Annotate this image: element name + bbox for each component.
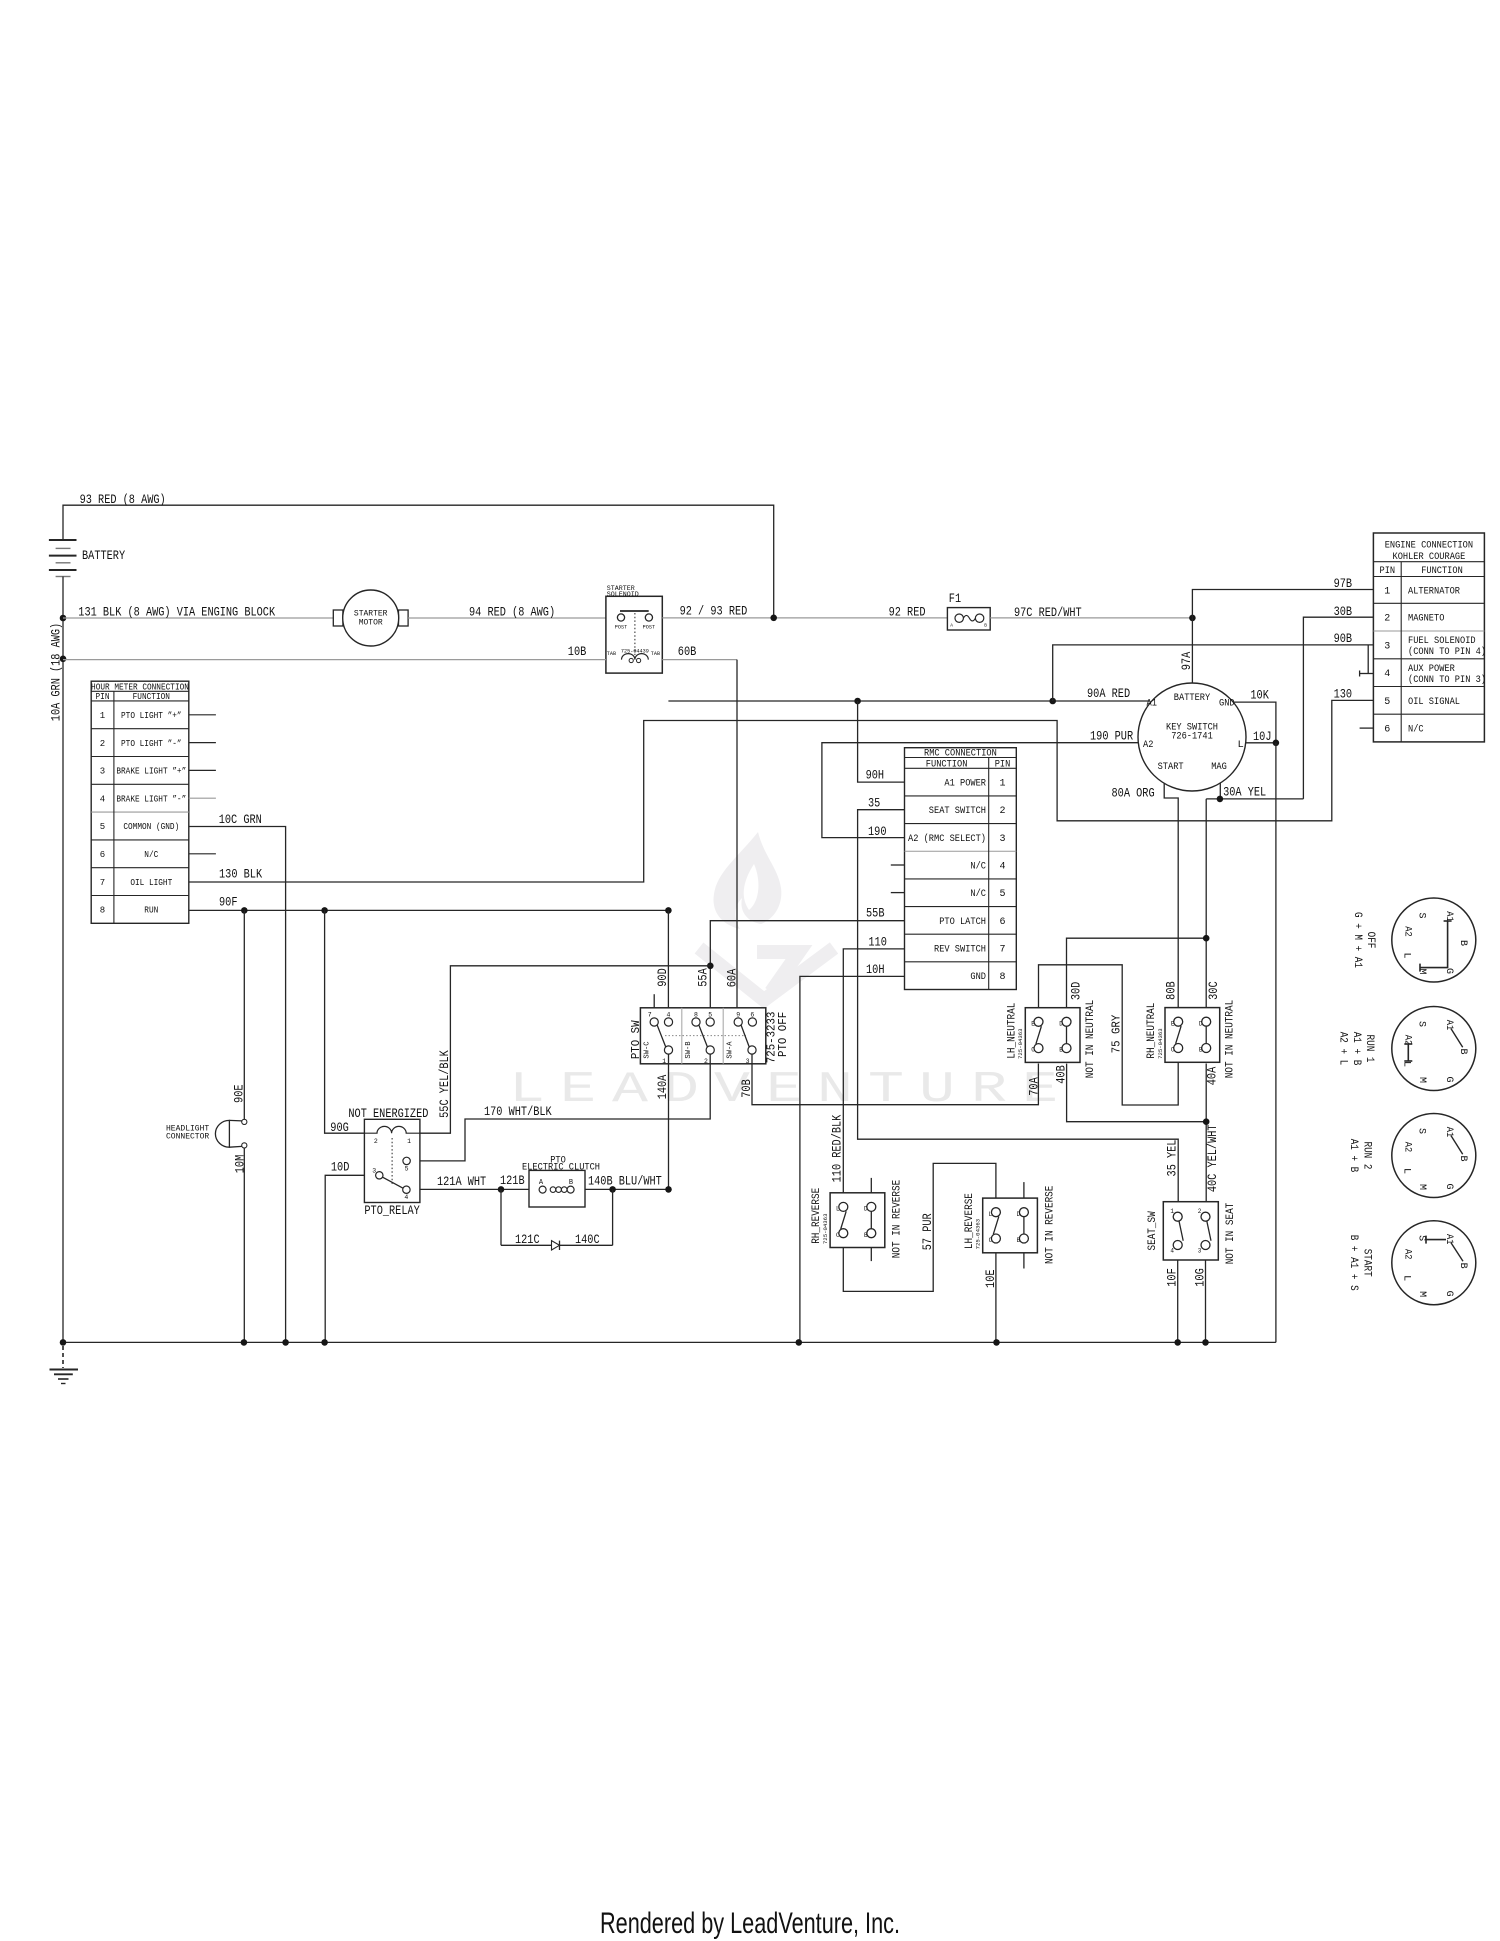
svg-text:4: 4 (1384, 669, 1390, 680)
svg-text:A2: A2 (1402, 926, 1413, 936)
svg-text:9: 9 (736, 1011, 740, 1018)
svg-text:1: 1 (407, 1138, 411, 1145)
wire 40A / 40C YEL/WHT (1204, 1064, 1220, 1202)
svg-text:B: B (1457, 1048, 1468, 1054)
svg-text:B: B (864, 1232, 868, 1239)
svg-text:SW-A: SW-A (726, 1041, 734, 1059)
wire 90F (189, 895, 669, 911)
svg-text:140A: 140A (655, 1075, 670, 1100)
svg-text:PTO OFF: PTO OFF (776, 1012, 790, 1057)
svg-text:C: C (836, 1232, 840, 1239)
wire 30D (1067, 938, 1207, 1008)
svg-text:B: B (1457, 940, 1468, 946)
wire 40B (1053, 1064, 1206, 1122)
node 90G junction (321, 907, 328, 914)
svg-text:3: 3 (100, 767, 105, 777)
svg-text:NOT IN REVERSE: NOT IN REVERSE (1044, 1185, 1056, 1264)
svg-text:130: 130 (1334, 687, 1353, 702)
wire 75 GRY (1039, 965, 1179, 1105)
svg-text:6: 6 (999, 917, 1005, 928)
svg-text:B: B (1457, 1155, 1468, 1161)
wire 130 engine to hour meter (189, 687, 1374, 883)
svg-text:70B: 70B (739, 1079, 754, 1098)
svg-text:OFF: OFF (1364, 932, 1376, 949)
svg-text:PTO LIGHT ”-”: PTO LIGHT ”-” (121, 739, 182, 749)
svg-text:ENGINE CONNECTION: ENGINE CONNECTION (1385, 541, 1473, 552)
svg-text:PTO SW: PTO SW (629, 1020, 643, 1059)
wire 92 / 93 RED (662, 604, 947, 619)
svg-text:(CONN TO PIN 3): (CONN TO PIN 3) (1408, 674, 1486, 686)
svg-text:S: S (1416, 1235, 1427, 1241)
key position RUN 2 (1347, 1114, 1476, 1198)
svg-text:40B: 40B (1053, 1065, 1068, 1084)
svg-text:BRAKE LIGHT ”-”: BRAKE LIGHT ”-” (116, 794, 186, 804)
watermark flame logo (714, 832, 782, 929)
svg-text:110: 110 (868, 935, 887, 950)
svg-text:30B: 30B (1334, 604, 1353, 619)
svg-text:D: D (1059, 1020, 1063, 1027)
svg-text:4: 4 (404, 1194, 408, 1201)
svg-text:START: START (1158, 761, 1184, 773)
svg-text:POST: POST (643, 625, 655, 631)
switch S3 LH_NEUTRAL 725-04363 (1006, 1000, 1096, 1078)
svg-text:4: 4 (999, 861, 1005, 872)
watermark LEADVENTURE text (509, 1065, 1058, 1115)
svg-text:S: S (1416, 912, 1427, 918)
svg-text:START: START (1360, 1249, 1372, 1277)
svg-text:30A YEL: 30A YEL (1223, 785, 1266, 800)
switch S5 RH_REVERSE 725-04363 (811, 1178, 904, 1261)
svg-text:7: 7 (648, 1011, 652, 1018)
svg-text:55B: 55B (866, 906, 885, 921)
svg-text:3: 3 (1384, 641, 1390, 652)
wire 30A YEL (1206, 783, 1303, 800)
svg-text:S: S (1416, 1128, 1427, 1134)
svg-text:10K: 10K (1250, 688, 1269, 703)
svg-text:10G: 10G (1192, 1268, 1207, 1287)
wire 170 WHT/BLK (420, 1054, 710, 1161)
svg-text:10B: 10B (568, 644, 587, 659)
svg-text:131 BLK (8 AWG) VIA ENGING BLO: 131 BLK (8 AWG) VIA ENGING BLOCK (78, 604, 275, 619)
svg-text:8: 8 (999, 972, 1005, 983)
svg-text:97A: 97A (1179, 652, 1194, 671)
connector J1 engine connection table (1373, 533, 1486, 742)
svg-text:10J: 10J (1253, 729, 1272, 744)
svg-text:10A GRN (18 AWG): 10A GRN (18 AWG) (48, 623, 63, 721)
svg-text:75 GRY: 75 GRY (1110, 1015, 1124, 1054)
svg-text:Rendered by LeadVenture, Inc.: Rendered by LeadVenture, Inc. (600, 1907, 900, 1940)
switch S1 key switch 726-1741 (1138, 683, 1246, 791)
svg-text:40A: 40A (1204, 1067, 1219, 1086)
svg-text:MOTOR: MOTOR (359, 619, 383, 628)
wire 10F (1165, 1260, 1180, 1342)
svg-text:8: 8 (694, 1011, 698, 1018)
svg-text:10H: 10H (866, 962, 885, 977)
svg-text:L: L (1238, 739, 1244, 751)
svg-text:90F: 90F (219, 895, 238, 910)
connector J2 hour meter connection table (91, 681, 189, 923)
svg-text:3: 3 (372, 1168, 376, 1175)
svg-text:10E: 10E (983, 1269, 998, 1288)
svg-text:G: G (1443, 968, 1454, 974)
wire 97C RED/WHT (990, 605, 1192, 620)
svg-text:1: 1 (1384, 586, 1390, 597)
switch S6 LH_REVERSE 725-04363 (964, 1182, 1057, 1268)
wire hour meter stubs (189, 715, 216, 854)
svg-text:2: 2 (999, 806, 1005, 817)
node 30D junction (1203, 935, 1210, 942)
node 90H junction (854, 698, 861, 705)
svg-text:T: T (868, 1065, 904, 1115)
wire 55B (696, 906, 905, 1019)
svg-text:FUNCTION: FUNCTION (133, 692, 170, 702)
wire 90G (325, 910, 365, 1135)
svg-text:BRAKE LIGHT ”+”: BRAKE LIGHT ”+” (116, 767, 186, 777)
svg-text:N/C: N/C (1408, 724, 1424, 736)
svg-text:POST: POST (615, 625, 627, 631)
wire 10 ground return right (1275, 743, 1277, 1343)
wire 70B (739, 1054, 1041, 1105)
node battery-10B junction (60, 656, 67, 663)
node 140A junction (665, 1186, 672, 1193)
svg-text:A2 (RMC SELECT): A2 (RMC SELECT) (908, 833, 986, 845)
diode D1 clutch flyback (501, 1189, 613, 1250)
svg-text:E: E (560, 1065, 596, 1115)
svg-text:190 PUR: 190 PUR (1090, 729, 1133, 744)
svg-text:55A: 55A (696, 968, 711, 987)
svg-text:40C YEL/WHT: 40C YEL/WHT (1205, 1124, 1220, 1192)
svg-text:PIN: PIN (1380, 566, 1396, 577)
svg-text:1: 1 (1170, 1208, 1174, 1215)
svg-text:N: N (817, 1065, 853, 1115)
fuse F1 (947, 591, 990, 630)
svg-text:S: S (1416, 1021, 1427, 1027)
svg-text:94 RED (8 AWG): 94 RED (8 AWG) (469, 604, 555, 619)
svg-text:1: 1 (999, 779, 1005, 790)
wire 10M (232, 1148, 247, 1342)
svg-text:130 BLK: 130 BLK (219, 867, 262, 882)
svg-text:5: 5 (405, 1165, 409, 1172)
wire 90B (1053, 631, 1374, 701)
svg-text:SEAT SWITCH: SEAT SWITCH (929, 806, 986, 817)
svg-text:STARTER: STARTER (354, 610, 388, 619)
svg-text:5: 5 (999, 889, 1005, 900)
svg-text:PTO LATCH: PTO LATCH (939, 917, 986, 928)
node 90D junction (665, 907, 672, 914)
wire 94 RED (8 AWG) (408, 604, 606, 619)
svg-text:7: 7 (999, 944, 1005, 955)
svg-text:10M: 10M (232, 1155, 247, 1174)
svg-text:6: 6 (750, 1011, 754, 1018)
wire 93 RED (8 AWG) (63, 492, 774, 618)
svg-text:AUX POWER: AUX POWER (1408, 664, 1455, 675)
svg-text:90A RED: 90A RED (1087, 686, 1130, 701)
svg-text:121B: 121B (500, 1173, 525, 1188)
wire 10K (1233, 688, 1276, 743)
wire 90D (655, 910, 670, 1018)
svg-text:A2: A2 (1402, 1249, 1413, 1259)
svg-text:L: L (1401, 1061, 1412, 1067)
svg-text:GND: GND (970, 972, 986, 983)
svg-text:COMMON (GND): COMMON (GND) (123, 822, 179, 832)
svg-text:90E: 90E (231, 1084, 246, 1103)
svg-text:(CONN TO PIN 4): (CONN TO PIN 4) (1408, 646, 1486, 658)
svg-text:5: 5 (708, 1011, 712, 1018)
wire 10J (1246, 729, 1276, 744)
svg-text:60A: 60A (725, 969, 740, 988)
svg-text:170 WHT/BLK: 170 WHT/BLK (484, 1104, 552, 1119)
node ground rail junctions (60, 1339, 1209, 1346)
svg-text:D: D (1199, 1020, 1203, 1027)
clutch PTO electric clutch (522, 1155, 600, 1207)
svg-text:M: M (1416, 1184, 1427, 1190)
svg-text:4: 4 (1170, 1247, 1174, 1254)
node 90E junction (241, 907, 248, 914)
svg-text:KOHLER COURAGE: KOHLER COURAGE (1393, 552, 1466, 563)
svg-text:GND: GND (1219, 698, 1235, 710)
svg-text:SEAT_SW: SEAT_SW (1147, 1211, 1159, 1251)
svg-text:G + M + A1: G + M + A1 (1351, 912, 1363, 968)
svg-text:B: B (1457, 1263, 1468, 1269)
svg-text:N/C: N/C (970, 860, 986, 872)
svg-text:MAG: MAG (1211, 761, 1227, 773)
svg-text:725-04363: 725-04363 (975, 1219, 982, 1250)
svg-text:725-04363: 725-04363 (1157, 1028, 1164, 1059)
wire 10E (983, 1253, 998, 1343)
svg-text:97B: 97B (1334, 576, 1353, 591)
svg-text:BATTERY: BATTERY (82, 548, 125, 563)
svg-text:L: L (1401, 952, 1412, 958)
svg-text:A2: A2 (1143, 739, 1153, 751)
svg-text:725-04439: 725-04439 (621, 648, 649, 654)
svg-text:726-1741: 726-1741 (1171, 731, 1213, 743)
svg-text:A: A (612, 1065, 649, 1115)
svg-text:70A: 70A (1026, 1077, 1041, 1096)
svg-text:L: L (836, 1206, 840, 1213)
svg-text:A1: A1 (1443, 911, 1454, 921)
switch S7 SEAT_SW (1147, 1202, 1237, 1265)
watermark V mark (699, 948, 834, 1000)
svg-text:5: 5 (1384, 697, 1390, 708)
svg-text:60B: 60B (678, 644, 697, 659)
svg-text:121C: 121C (515, 1232, 540, 1247)
svg-text:SOLENOID: SOLENOID (607, 591, 639, 598)
svg-text:93 RED (8 AWG): 93 RED (8 AWG) (80, 492, 166, 507)
svg-text:80A ORG: 80A ORG (1112, 786, 1155, 801)
svg-text:35: 35 (868, 796, 880, 811)
wire 97A (1179, 618, 1194, 684)
svg-text:30C: 30C (1206, 981, 1221, 1000)
key position START (1347, 1221, 1476, 1305)
node 40C junction (1203, 1118, 1210, 1125)
svg-text:G: G (1443, 1291, 1454, 1297)
key position OFF (1351, 898, 1476, 982)
switch S2 PTO SW 725-3233 (629, 1008, 790, 1065)
node battery-131 junction (60, 615, 67, 622)
svg-text:10F: 10F (1165, 1268, 1180, 1287)
svg-text:6: 6 (1384, 725, 1390, 736)
svg-text:PIN: PIN (96, 692, 110, 702)
svg-text:2: 2 (1384, 614, 1390, 625)
ground (50, 1346, 79, 1384)
wire RMC N/C stubs (891, 865, 905, 893)
svg-text:6: 6 (100, 850, 105, 860)
svg-text:4: 4 (100, 794, 105, 804)
wire 97B (1192, 576, 1373, 618)
svg-text:2: 2 (704, 1058, 708, 1065)
svg-text:M: M (1416, 1291, 1427, 1297)
node 121B junction (498, 1186, 505, 1193)
svg-text:NOT IN NEUTRAL: NOT IN NEUTRAL (1225, 1000, 1237, 1078)
wire 121A WHT (420, 1173, 529, 1189)
svg-text:2: 2 (100, 739, 105, 749)
svg-text:N/C: N/C (970, 888, 986, 900)
svg-text:90H: 90H (866, 767, 885, 782)
wire 140A (655, 1054, 670, 1189)
svg-text:NOT IN NEUTRAL: NOT IN NEUTRAL (1085, 1000, 1097, 1078)
svg-text:140B BLU/WHT: 140B BLU/WHT (588, 1174, 662, 1189)
wire 190 PUR (822, 729, 1138, 840)
wire 60B (662, 644, 737, 1018)
svg-text:C: C (1171, 1047, 1175, 1054)
svg-text:4: 4 (666, 1011, 670, 1018)
svg-text:3: 3 (1198, 1247, 1202, 1254)
svg-text:E: E (766, 1065, 802, 1115)
svg-text:HOUR METER CONNECTION: HOUR METER CONNECTION (91, 682, 189, 692)
node 93RED junction (770, 615, 777, 622)
svg-text:1: 1 (662, 1058, 666, 1065)
svg-text:90B: 90B (1334, 631, 1353, 646)
svg-text:NOT IN SEAT: NOT IN SEAT (1225, 1202, 1237, 1264)
wire 10C GRN (189, 812, 286, 1342)
svg-text:B + A1 + S: B + A1 + S (1347, 1235, 1359, 1291)
svg-text:140C: 140C (575, 1232, 600, 1247)
svg-text:FUNCTION: FUNCTION (926, 759, 968, 770)
svg-text:OIL SIGNAL: OIL SIGNAL (1408, 697, 1460, 708)
wire 80A ORG (1112, 783, 1179, 1007)
svg-text:121A WHT: 121A WHT (437, 1174, 486, 1189)
wire 30C (1206, 799, 1221, 1008)
svg-text:ALTERNATOR: ALTERNATOR (1408, 586, 1460, 597)
svg-text:OIL LIGHT: OIL LIGHT (130, 878, 172, 888)
node 97 junction (1189, 615, 1196, 622)
svg-text:U: U (919, 1065, 955, 1115)
wire 10G (1192, 1260, 1207, 1342)
svg-text:2: 2 (1198, 1208, 1202, 1215)
svg-text:B: B (1199, 1047, 1203, 1054)
svg-text:M: M (1416, 1077, 1427, 1083)
svg-text:10C GRN: 10C GRN (219, 812, 262, 827)
svg-text:90G: 90G (330, 1120, 349, 1135)
wire ground rail (63, 1341, 1276, 1343)
svg-text:92 RED: 92 RED (889, 604, 926, 619)
wire 10D (325, 1160, 364, 1343)
svg-text:5: 5 (100, 822, 105, 832)
svg-text:C: C (1031, 1047, 1035, 1054)
svg-text:RUN: RUN (144, 906, 158, 916)
connector J3 RMC connection table (905, 748, 1017, 990)
battery B1 (49, 540, 125, 577)
svg-text:2: 2 (374, 1138, 378, 1145)
relay K2 PTO_RELAY (348, 1106, 428, 1218)
svg-text:M: M (1416, 968, 1427, 974)
relay K1 starter solenoid (606, 585, 662, 673)
wire 30B (1303, 604, 1373, 799)
svg-text:L: L (1401, 1168, 1412, 1174)
svg-text:110 RED/BLK: 110 RED/BLK (830, 1115, 845, 1183)
wire 57 PUR (843, 1163, 996, 1291)
wire PTO SW terminal7 stub (653, 994, 655, 1018)
svg-text:C: C (989, 1237, 993, 1244)
svg-text:E: E (1031, 1020, 1035, 1027)
node 10J junction (1273, 740, 1280, 747)
svg-text:3: 3 (999, 834, 1005, 845)
wire 55C YEL/BLK (420, 966, 710, 1133)
node 30A junction (1217, 796, 1224, 803)
svg-text:PTO_RELAY: PTO_RELAY (364, 1203, 420, 1218)
svg-text:725-04363: 725-04363 (822, 1214, 829, 1245)
svg-text:3: 3 (746, 1058, 750, 1065)
svg-text:FUNCTION: FUNCTION (1421, 566, 1463, 577)
svg-text:R: R (971, 1065, 1007, 1115)
wire 131 BLK (8 AWG) VIA ENGING BLOCK (63, 604, 333, 619)
svg-text:A1 + B: A1 + B (1347, 1139, 1359, 1173)
svg-text:NOT IN REVERSE: NOT IN REVERSE (892, 1179, 904, 1258)
wire engine pin3-pin4 bracket (1360, 645, 1374, 677)
svg-text:90D: 90D (655, 968, 670, 987)
wire battery negative / ground bus left (62, 577, 64, 1343)
svg-text:97C RED/WHT: 97C RED/WHT (1014, 605, 1082, 620)
svg-text:SW-B: SW-B (685, 1041, 693, 1058)
svg-text:RUN 1: RUN 1 (1363, 1035, 1375, 1063)
svg-text:35 YEL: 35 YEL (1164, 1140, 1179, 1177)
wire engine pin6 stub (1360, 727, 1374, 729)
svg-text:PIN: PIN (995, 759, 1011, 770)
svg-text:BATTERY: BATTERY (1174, 692, 1211, 704)
svg-text:55C YEL/BLK: 55C YEL/BLK (437, 1050, 452, 1118)
svg-text:30D: 30D (1068, 981, 1083, 1000)
svg-text:57 PUR: 57 PUR (920, 1213, 935, 1250)
svg-text:RUN 2: RUN 2 (1360, 1142, 1372, 1170)
wire 35 (858, 796, 1180, 1202)
svg-text:8: 8 (100, 906, 105, 916)
wire 10B (63, 644, 606, 660)
svg-text:TAB: TAB (651, 651, 660, 657)
svg-text:B: B (1017, 1237, 1021, 1244)
svg-text:A2 + L: A2 + L (1337, 1032, 1349, 1066)
svg-text:PTO LIGHT ”+”: PTO LIGHT ”+” (121, 711, 182, 721)
svg-text:MAGNETO: MAGNETO (1408, 614, 1444, 625)
svg-text:G: G (1443, 1183, 1454, 1189)
svg-text:A2: A2 (1402, 1142, 1413, 1152)
lamp headlight connector (166, 1119, 247, 1148)
svg-text:1: 1 (100, 711, 105, 721)
svg-text:SW-C: SW-C (644, 1041, 652, 1058)
wire 110 (830, 935, 905, 1193)
key position RUN 1 (1337, 1007, 1476, 1091)
svg-text:F1: F1 (949, 591, 961, 606)
svg-text:10D: 10D (331, 1160, 350, 1175)
svg-text:FUEL SOLENOID: FUEL SOLENOID (1408, 636, 1476, 647)
svg-text:A1 POWER: A1 POWER (944, 779, 986, 790)
svg-text:B: B (984, 623, 987, 629)
svg-text:190: 190 (868, 824, 887, 839)
wire 90H (858, 701, 905, 782)
node 90B junction (1049, 698, 1056, 705)
svg-text:N/C: N/C (144, 850, 159, 860)
svg-text:7: 7 (100, 878, 105, 888)
svg-text:D: D (864, 1206, 868, 1213)
